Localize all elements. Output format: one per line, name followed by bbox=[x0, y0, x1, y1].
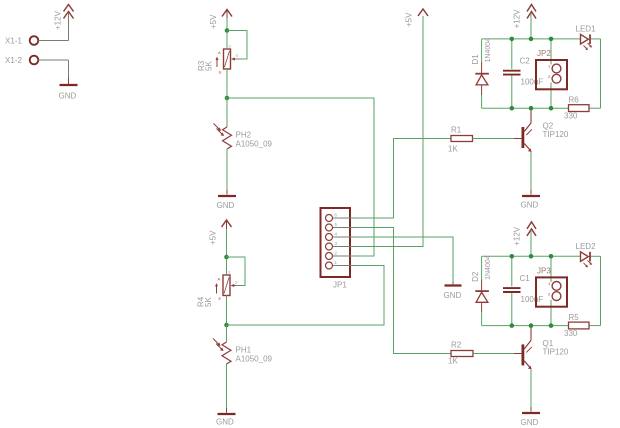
wire +12V bus top (lower block) bbox=[482, 255, 581, 257]
svg-text:A: A bbox=[218, 277, 221, 282]
wire JP1 pin 4 to GND bbox=[357, 237, 453, 284]
node JP3 pin 2 junction bbox=[549, 323, 554, 328]
svg-text:GND: GND bbox=[59, 92, 77, 101]
connector X1 pad X1-1 with name label bbox=[5, 36, 38, 45]
svg-text:PH2: PH2 bbox=[236, 131, 252, 140]
node R3 top junction bbox=[225, 28, 230, 33]
resistor R1 1K bbox=[448, 126, 473, 154]
svg-text:TIP120: TIP120 bbox=[543, 130, 569, 139]
supply +5V symbol (top middle) bbox=[405, 9, 429, 27]
svg-text:+5V: +5V bbox=[405, 12, 414, 27]
svg-text:R6: R6 bbox=[569, 96, 580, 105]
svg-text:100uF: 100uF bbox=[521, 78, 544, 87]
diode D1 1N4004 bbox=[471, 38, 492, 108]
wire R3 wiper loop bbox=[227, 31, 247, 60]
LED LED2 bbox=[576, 242, 597, 268]
ground GND (JP1 pin 4) bbox=[444, 286, 462, 301]
svg-text:GND: GND bbox=[521, 201, 539, 210]
svg-text:PH1: PH1 bbox=[236, 346, 252, 355]
svg-text:+12V: +12V bbox=[54, 10, 63, 30]
svg-text:GND: GND bbox=[521, 418, 539, 427]
svg-text:A: A bbox=[218, 50, 221, 55]
wire X1-1 to +12V bbox=[38, 13, 68, 41]
svg-text:330: 330 bbox=[564, 112, 578, 121]
wire PH1 to GND bbox=[226, 364, 228, 413]
svg-text:S: S bbox=[236, 53, 239, 58]
svg-text:+12V: +12V bbox=[513, 9, 522, 29]
node Q2 collector junction bbox=[529, 106, 534, 111]
supply +5V symbol (above R3) bbox=[209, 10, 232, 30]
wire R2 to Q1 base bbox=[473, 353, 522, 355]
wire PH2 node to JP1 pin 2 bbox=[227, 98, 374, 256]
svg-text:+5V: +5V bbox=[209, 230, 218, 245]
resistor R2 1K bbox=[448, 341, 473, 366]
capacitor C1 100uF bbox=[503, 256, 543, 325]
svg-text:R2: R2 bbox=[451, 341, 462, 350]
supply +12V symbol (upper block) bbox=[513, 5, 537, 39]
supply +12V symbol (top-left) bbox=[54, 5, 74, 31]
wire +12V bus top (upper block) bbox=[482, 38, 581, 40]
svg-text:R1: R1 bbox=[451, 126, 462, 135]
node C2 top junction bbox=[510, 37, 515, 42]
diode D2 1N4004 bbox=[471, 255, 492, 325]
svg-text:+5V: +5V bbox=[209, 14, 218, 29]
svg-text:1N4004: 1N4004 bbox=[485, 255, 492, 280]
svg-text:JP1: JP1 bbox=[333, 281, 347, 290]
wire node to PH2 bbox=[226, 98, 228, 127]
connector JP3 2-pin header bbox=[536, 256, 567, 325]
svg-text:A1050_09: A1050_09 bbox=[236, 355, 273, 364]
svg-text:E: E bbox=[219, 70, 222, 75]
connector X1 pad X1-2 with name label bbox=[5, 56, 38, 65]
svg-text:JP3: JP3 bbox=[537, 266, 551, 275]
resistor R5 330 bbox=[564, 313, 589, 338]
wire +5V to R3 node bbox=[226, 18, 228, 31]
connector JP1 6-pin header bbox=[321, 208, 358, 290]
wire +5V to R4 node bbox=[226, 229, 228, 257]
node C2 bottom junction bbox=[510, 106, 515, 111]
wire collector bus bottom (upper block) bbox=[482, 107, 569, 109]
ground GND (Q1 emitter) bbox=[521, 413, 541, 427]
wire PH1 node to JP1 pin 1 bbox=[227, 266, 385, 326]
svg-text:S: S bbox=[235, 280, 238, 285]
transistor Q2 TIP120 bbox=[522, 110, 569, 152]
svg-text:5K: 5K bbox=[205, 61, 214, 71]
node C1 top junction bbox=[510, 254, 515, 259]
svg-text:X1-1: X1-1 bbox=[5, 37, 22, 46]
svg-text:+12V: +12V bbox=[513, 226, 522, 246]
svg-text:GND: GND bbox=[216, 418, 234, 427]
wire JP1 pin 6 to R1 bbox=[357, 139, 451, 219]
wire LEDk cathode to R5 right bbox=[590, 256, 601, 325]
svg-text:D1: D1 bbox=[471, 54, 480, 65]
svg-text:C2: C2 bbox=[520, 57, 531, 66]
svg-text:5K: 5K bbox=[204, 297, 213, 307]
node PH2 divider junction bbox=[225, 96, 230, 101]
ground GND (below PH1) bbox=[216, 414, 236, 427]
svg-text:1N4004: 1N4004 bbox=[485, 38, 492, 63]
transistor Q1 TIP120 bbox=[522, 327, 569, 369]
svg-text:1K: 1K bbox=[448, 357, 458, 366]
photoresistor PH1 A1050_09 bbox=[213, 339, 273, 365]
wire R3 body bbox=[226, 32, 228, 98]
svg-text:C1: C1 bbox=[520, 274, 531, 283]
node R4 top junction bbox=[224, 255, 229, 260]
svg-text:JP2: JP2 bbox=[537, 49, 551, 58]
supply +12V symbol (lower block) bbox=[513, 222, 537, 256]
wire R4 wiper loop bbox=[227, 257, 246, 286]
svg-text:D2: D2 bbox=[471, 271, 480, 282]
svg-text:100uF: 100uF bbox=[521, 295, 544, 304]
capacitor C2 100uF bbox=[503, 39, 543, 108]
wire node to PH1 bbox=[226, 325, 228, 342]
ground GND (Q2 emitter) bbox=[521, 196, 541, 210]
svg-text:E: E bbox=[219, 296, 222, 301]
svg-text:LED2: LED2 bbox=[576, 242, 597, 251]
trimmer R4 5K bbox=[197, 270, 240, 308]
ground GND (below X1-2) bbox=[59, 85, 78, 101]
connector JP2 2-pin header bbox=[536, 39, 567, 108]
wire X1-2 to GND bbox=[38, 60, 68, 84]
wire R4 body bbox=[226, 259, 228, 325]
node JP2 pin 2 junction bbox=[549, 106, 554, 111]
svg-text:LED1: LED1 bbox=[576, 25, 597, 34]
svg-text:TIP120: TIP120 bbox=[543, 347, 569, 356]
svg-text:A1050_09: A1050_09 bbox=[236, 140, 273, 149]
node JP3 pin 1 junction bbox=[549, 254, 554, 259]
wire collector bus bottom (lower block) bbox=[482, 325, 569, 327]
wire JP1 pin 5 to R2 bbox=[357, 228, 451, 354]
wire LEDk cathode to R6 right bbox=[590, 39, 601, 108]
node C1 bottom junction bbox=[510, 323, 515, 328]
wire Q1 emitter to GND bbox=[530, 369, 532, 411]
LED LED1 bbox=[576, 25, 597, 51]
photoresistor PH2 A1050_09 bbox=[214, 124, 273, 150]
wire Q2 emitter to GND bbox=[530, 152, 532, 195]
trimmer R3 5K bbox=[197, 44, 240, 75]
wire PH2 to GND bbox=[226, 149, 228, 195]
svg-text:X1-2: X1-2 bbox=[5, 56, 22, 65]
node PH1 divider junction bbox=[224, 323, 229, 328]
node Q1 collector junction bbox=[529, 323, 534, 328]
node +12V stem junction (lower block) bbox=[529, 254, 534, 259]
supply +5V symbol (above R4) bbox=[209, 220, 232, 245]
svg-text:R5: R5 bbox=[569, 313, 580, 322]
resistor R6 330 bbox=[564, 96, 589, 121]
wire JP1 pin 3 to +5V bbox=[357, 16, 423, 247]
svg-text:1K: 1K bbox=[448, 145, 458, 154]
wire R1 to Q2 base bbox=[473, 138, 522, 140]
svg-text:330: 330 bbox=[564, 329, 578, 338]
node JP2 pin 1 junction bbox=[549, 37, 554, 42]
node +12V stem junction (upper block) bbox=[529, 37, 534, 42]
svg-text:GND: GND bbox=[444, 291, 462, 300]
ground GND (below PH2) bbox=[217, 196, 237, 210]
svg-text:GND: GND bbox=[217, 201, 235, 210]
